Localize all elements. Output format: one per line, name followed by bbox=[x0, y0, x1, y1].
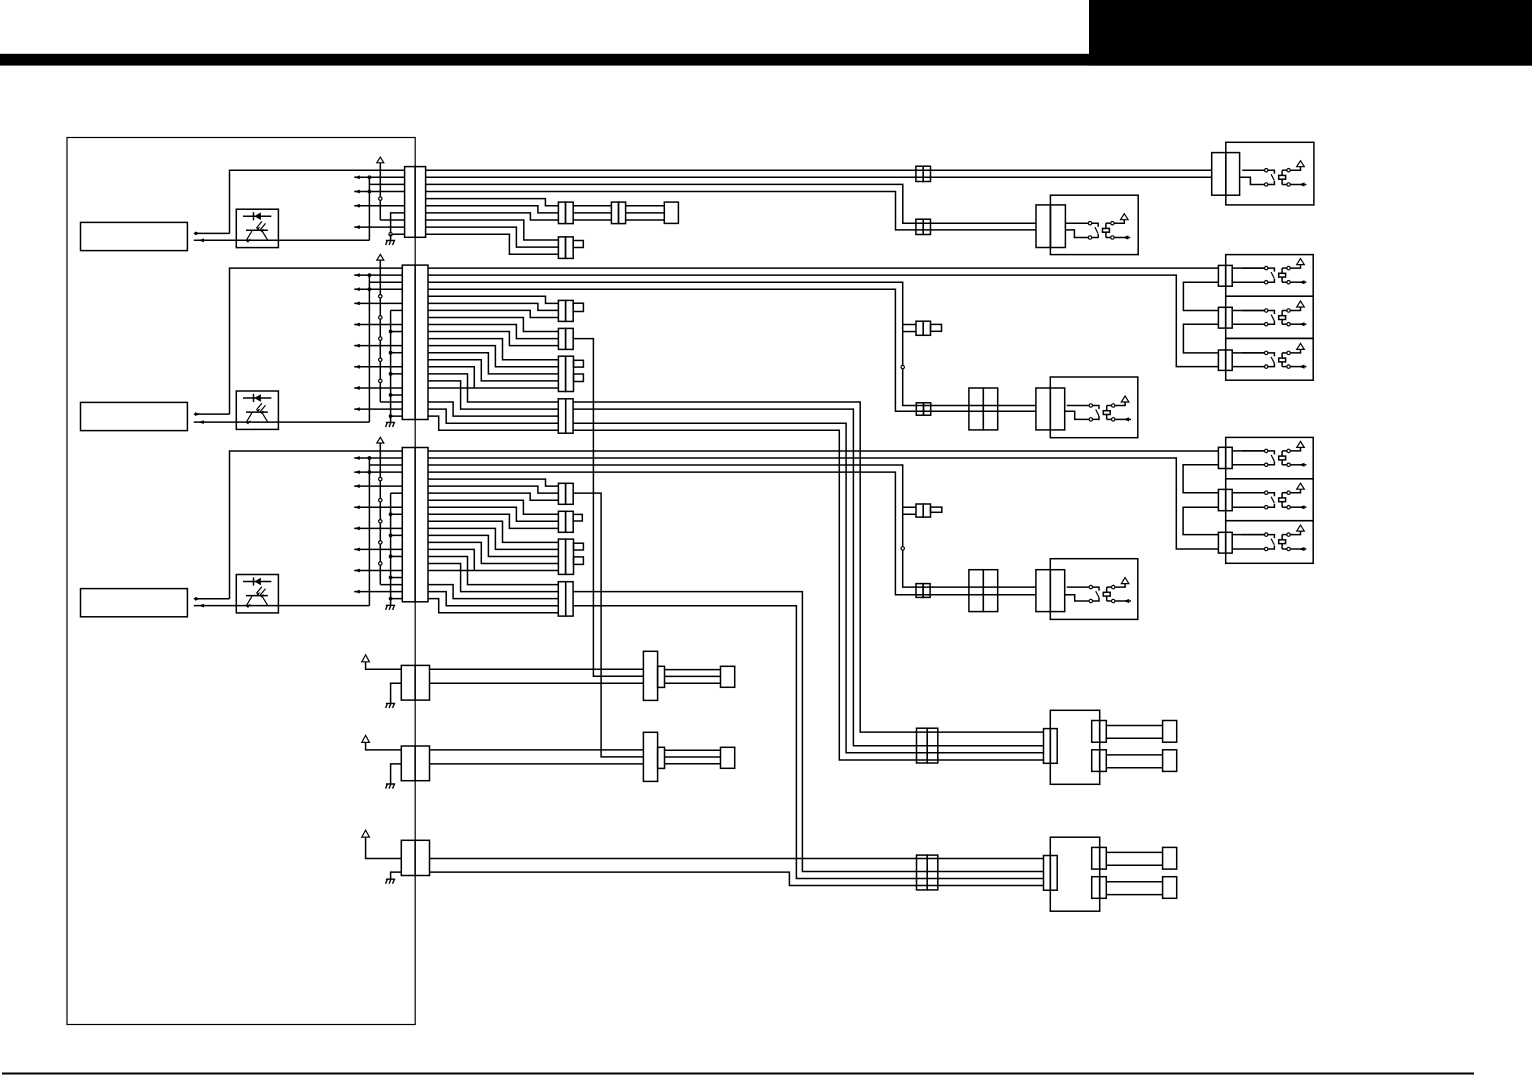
jack stack1 connector 2 bbox=[1218, 307, 1225, 328]
relay blade bbox=[1271, 357, 1274, 363]
relay input arrow bbox=[1114, 237, 1130, 239]
opto phototransistor bbox=[246, 411, 268, 413]
inline big pair group2 bbox=[917, 855, 928, 890]
wire label2 riser to CN2 pin1 bbox=[230, 268, 403, 414]
jack stack2 box3 bbox=[1226, 521, 1314, 564]
relay contact 1 bbox=[1242, 267, 1264, 269]
jack symbol bbox=[1232, 534, 1264, 536]
opto phototransistor bbox=[246, 595, 268, 597]
group1 lower wires bbox=[1106, 754, 1162, 756]
wire CN2 pin6 arrow bbox=[354, 302, 402, 304]
jack stack2 connector 3 bbox=[1218, 532, 1225, 553]
relay input arrow bbox=[1291, 464, 1307, 466]
plug B body bbox=[643, 732, 657, 781]
stub connector unit3 bbox=[916, 504, 923, 517]
relay blade bbox=[1271, 315, 1274, 321]
wire CN3 pin21 cascade to S4' bbox=[428, 592, 558, 606]
wire CN3 pin1 to jack stack2 bbox=[428, 450, 1218, 452]
power symbol unit3 bbox=[377, 437, 384, 443]
label box 3 bbox=[81, 589, 188, 617]
wire CN2 pin9 cascade bbox=[428, 325, 558, 339]
relay input arrow bbox=[1291, 323, 1307, 325]
ground bus unit3 bbox=[390, 493, 392, 598]
relay terminal 4 bbox=[1287, 365, 1290, 368]
relay contact 2 bbox=[1265, 506, 1268, 509]
wire CN3 pin7 cascade bbox=[428, 493, 558, 500]
relay box B bbox=[1050, 195, 1138, 254]
connector CN3 board edge bbox=[402, 448, 428, 602]
wire CN3 pin3 to stub and box D bbox=[428, 465, 1036, 587]
wire S4 row1 to group1 bbox=[573, 402, 1043, 732]
relay contact bracket bbox=[1092, 223, 1098, 227]
relay terminal 4 bbox=[1287, 463, 1290, 466]
relay input arrow bbox=[1291, 366, 1307, 368]
relay terminal 3 bbox=[1287, 533, 1290, 536]
relay terminal 3 bbox=[1111, 222, 1114, 225]
opto light arrows bbox=[257, 587, 266, 596]
relay contact bracket bbox=[1093, 587, 1099, 591]
bottom rule bbox=[2, 1073, 1474, 1075]
jack stack1 box2 bbox=[1226, 296, 1314, 338]
relay blade bbox=[1271, 539, 1274, 545]
wire CN1 pin3 bbox=[369, 183, 404, 185]
wire CNC row2 to group2 bbox=[430, 872, 1044, 885]
relay contact 2 bbox=[1089, 418, 1092, 421]
wire CN3 pin8 cascade bbox=[428, 500, 558, 514]
wire label2 return (arrow left) bbox=[194, 421, 370, 423]
ground bus unit2 bbox=[390, 310, 392, 416]
opto LED bbox=[243, 581, 271, 583]
relay contact 1 bbox=[1066, 222, 1088, 224]
relay contact bracket bbox=[1268, 535, 1274, 539]
wire CN3 pin9 cascade bbox=[428, 507, 558, 521]
wire box C row2 step bbox=[1065, 411, 1089, 419]
bus vertical x369 unit3 bbox=[368, 458, 370, 606]
relay contact 2 bbox=[1265, 365, 1268, 368]
wire CN3 pin12 arrow bbox=[354, 527, 402, 529]
stub connector unit2 bbox=[916, 321, 923, 335]
wire CN1 pin1 to relay box A bbox=[426, 169, 1212, 171]
wire CN2 pin15 cascade bbox=[428, 367, 474, 388]
wire CN1 pin9 arrow bbox=[354, 226, 404, 228]
wire CN2 pin2 arrow bbox=[354, 274, 402, 276]
plug B wires to end bbox=[665, 749, 721, 751]
wire CN2 pin5 cascade bbox=[428, 296, 558, 303]
wire box A row2 step bbox=[1240, 177, 1265, 184]
relay box D bbox=[1050, 559, 1138, 620]
jack chain link 4 bbox=[1183, 507, 1218, 534]
connector S1' bbox=[558, 483, 565, 504]
wire label3 return (arrow left) bbox=[194, 605, 370, 607]
ground symbol unit2 bbox=[386, 422, 396, 427]
wire S1' row2 long drop to plug B bbox=[573, 493, 643, 757]
relay terminal 3 bbox=[1287, 449, 1290, 452]
relay contact bracket bbox=[1268, 268, 1274, 272]
relay contact 2 bbox=[1265, 463, 1268, 466]
jack symbol bbox=[1232, 450, 1264, 452]
jack symbol bbox=[1232, 352, 1264, 354]
wire CN1 pin2 arrow bbox=[354, 176, 404, 178]
connector S4' bbox=[558, 582, 565, 616]
relay coil bbox=[1279, 456, 1286, 460]
power line unit3 bbox=[379, 443, 381, 585]
wires C1a to C1a2 bbox=[573, 205, 611, 207]
relay contact 1 bbox=[1242, 352, 1264, 354]
opto-isolator box bbox=[236, 575, 278, 613]
relay coil bbox=[1103, 592, 1110, 596]
wires C1a2 to end plug bbox=[626, 205, 665, 207]
inline pair to box D bbox=[916, 584, 923, 598]
wire CN3 pin9 arrow bbox=[354, 506, 402, 508]
wire CN1 pin5 cascade bbox=[426, 199, 559, 206]
wire CN2 pin21 cascade to S4 bbox=[428, 409, 558, 423]
group2 box bbox=[1050, 837, 1099, 911]
connector pair box C bbox=[1036, 388, 1050, 430]
wire CN2 pin11 cascade bbox=[428, 339, 558, 360]
wire CN3 pin10 cascade bbox=[428, 514, 558, 528]
relay coil bbox=[1103, 411, 1110, 415]
group1 upper end box bbox=[1163, 721, 1177, 743]
relay blade bbox=[1095, 227, 1098, 233]
relay contact bracket bbox=[1268, 311, 1274, 315]
relay supply arrow bbox=[1291, 349, 1301, 353]
opto LED bbox=[243, 215, 271, 217]
wire S2 row2 long drop to plug A bbox=[573, 339, 643, 677]
header black block top right bbox=[1089, 0, 1532, 66]
wire S4' row2 to group2 bbox=[573, 592, 1043, 872]
wire CN2 pin14 cascade bbox=[428, 360, 558, 381]
relay input arrow bbox=[1291, 281, 1307, 283]
relay input arrow bbox=[1115, 600, 1131, 602]
relay contact 1 bbox=[1242, 450, 1264, 452]
ground line unit1 bbox=[391, 213, 405, 234]
wire CN2 pin15 arrow bbox=[354, 366, 402, 368]
connector S1 with tab bbox=[558, 300, 565, 321]
relay contact 1 bbox=[1242, 534, 1264, 536]
wire label3 riser to CN3 pin1 bbox=[230, 451, 403, 599]
bus vertical x369 unit2 bbox=[368, 275, 370, 422]
power symbol unit2 bbox=[377, 254, 384, 260]
connector pair box D bbox=[1036, 570, 1050, 612]
wire CN1 pin2 to relay box A bbox=[426, 176, 1212, 178]
wire CN2 pin3 to stub and box C bbox=[428, 282, 1036, 405]
stub tab unit3 bbox=[931, 507, 942, 512]
inline connector pair to box B bbox=[916, 219, 923, 234]
connector S3 with two tabs bbox=[558, 356, 565, 391]
relay coil bbox=[1279, 175, 1286, 179]
wire CN2 pin10 cascade bbox=[428, 332, 558, 346]
wire CN2 pin17 cascade to S4 bbox=[428, 381, 558, 409]
connector pair C1a bbox=[558, 202, 565, 224]
group2 lower end box bbox=[1163, 877, 1177, 899]
relay input arrow bbox=[1291, 506, 1307, 508]
wire CN3 pin17 cascade to S4' bbox=[428, 563, 558, 591]
group1 box bbox=[1050, 710, 1099, 784]
relay input arrow bbox=[1291, 184, 1307, 186]
jack chain link 3 bbox=[1183, 465, 1218, 493]
inline connector pair on pins1-2 bbox=[916, 166, 923, 181]
wire CN1 pin3 to box B bbox=[426, 184, 1036, 223]
label box 2 bbox=[81, 402, 188, 430]
power line unit1 bbox=[379, 163, 381, 220]
relay contact 2 bbox=[1088, 236, 1091, 239]
wire CN3 pin3 bbox=[369, 464, 402, 466]
edge connector ground bbox=[391, 683, 402, 703]
wire CN3 pin4 to box D bbox=[428, 472, 1036, 595]
relay supply arrow bbox=[1291, 167, 1301, 171]
opto phototransistor bbox=[246, 229, 268, 231]
wire CN2 pin2 to jack stack1 bbox=[428, 275, 1218, 366]
connector pair box A bbox=[1212, 153, 1226, 196]
connector CN2 board edge bbox=[402, 265, 428, 419]
wire CN3 pin13 cascade bbox=[428, 535, 558, 556]
header black bar bbox=[0, 54, 1532, 66]
relay supply arrow bbox=[1115, 584, 1125, 588]
relay input arrow bbox=[1115, 418, 1131, 420]
relay contact bracket bbox=[1268, 451, 1274, 455]
wire label2 out (arrow right) bbox=[194, 413, 230, 415]
relay contact 2 bbox=[1265, 323, 1268, 326]
wire CN2 pin6 cascade bbox=[428, 303, 558, 310]
main board outline bbox=[67, 138, 415, 1025]
wire CN3 pin5 cascade bbox=[428, 479, 558, 486]
wire CNB row2 to plug B bbox=[430, 763, 644, 765]
ground symbol unit1 bbox=[386, 240, 396, 245]
wire S4 row4 to group1 bbox=[573, 423, 1043, 753]
wire CN3 pin2 arrow bbox=[354, 457, 402, 459]
wire CN3 pin6 cascade bbox=[428, 486, 558, 493]
relay terminal 3 bbox=[1287, 169, 1290, 172]
relay contact 1 bbox=[1067, 586, 1089, 588]
wire CN2 pin18 row to S3 bbox=[428, 387, 558, 389]
wire CN2 pin20 cascade to S4 bbox=[428, 402, 558, 416]
relay terminal 4 bbox=[1112, 418, 1115, 421]
wire CN1 pin4 to box B bbox=[426, 192, 1036, 230]
jack stack1 connector 3 bbox=[1218, 350, 1225, 370]
wire CNC row1 to group2 bbox=[430, 858, 1044, 860]
wire CN3 pin2 to jack stack2 bbox=[428, 458, 1218, 549]
relay coil bbox=[1279, 358, 1286, 362]
wire label1 return (arrow left) bbox=[194, 239, 370, 241]
jack stack1 connector 1 bbox=[1218, 265, 1225, 286]
wire CN3 pin15 arrow bbox=[354, 548, 402, 550]
wire label3 out (arrow right) bbox=[194, 598, 230, 600]
relay supply arrow bbox=[1114, 220, 1124, 224]
jack symbol bbox=[1232, 310, 1264, 312]
relay contact 2 bbox=[1265, 281, 1268, 284]
wire label1 out (arrow right) bbox=[194, 232, 230, 234]
power line unit2 bbox=[379, 260, 381, 402]
connector pair C1b bbox=[558, 237, 565, 259]
wire CN3 pin15 cascade bbox=[428, 549, 474, 570]
relay contact bracket bbox=[1268, 353, 1274, 357]
jack stack1 box3 bbox=[1226, 338, 1314, 380]
wire CN3 pin11 cascade bbox=[428, 521, 558, 542]
wire CN2 pin8 cascade bbox=[428, 317, 558, 331]
plug A end box bbox=[721, 666, 735, 687]
group2 upper wires bbox=[1106, 851, 1162, 853]
group2 connector bbox=[1044, 856, 1051, 891]
wire CN2 pin13 cascade bbox=[428, 353, 558, 374]
relay terminal 3 bbox=[1112, 404, 1115, 407]
group1 output pair lower bbox=[1092, 750, 1100, 772]
wire CN3 pin14 cascade bbox=[428, 542, 558, 563]
junction dots unit1 bbox=[368, 175, 372, 179]
group1 lower end box bbox=[1163, 750, 1177, 772]
connector S2 bbox=[558, 328, 565, 349]
relay supply arrow bbox=[1291, 531, 1301, 535]
relay contact bracket bbox=[1268, 493, 1274, 497]
jack symbol bbox=[1232, 492, 1264, 494]
plug A body bbox=[643, 651, 657, 700]
edge connector ground bbox=[391, 872, 402, 879]
relay terminal 3 bbox=[1287, 266, 1290, 269]
wire CN2 pin12 cascade bbox=[428, 346, 558, 367]
wire CN3 pin20 cascade to S4' bbox=[428, 585, 558, 599]
wire CN3 pin16 cascade to S4' bbox=[428, 556, 558, 584]
ground symbol unit3 bbox=[386, 605, 396, 610]
opto light arrows bbox=[257, 221, 266, 230]
group1 output pair upper bbox=[1092, 721, 1100, 743]
relay coil bbox=[1279, 498, 1286, 502]
group1 upper wires bbox=[1106, 725, 1162, 727]
connector CN1 board edge bbox=[405, 167, 426, 238]
relay coil bbox=[1279, 273, 1286, 277]
connector pair box B bbox=[1036, 205, 1050, 248]
relay contact bracket bbox=[1268, 170, 1274, 174]
relay terminal 4 bbox=[1287, 506, 1290, 509]
relay coil bbox=[1103, 228, 1110, 232]
relay terminal 4 bbox=[1111, 236, 1114, 239]
connector pair C1a2 bbox=[611, 202, 618, 224]
relay coil bbox=[1279, 540, 1286, 544]
relay blade bbox=[1096, 410, 1099, 416]
edge connector ground bbox=[391, 764, 402, 784]
wire CN1 pin9 cascade bbox=[426, 227, 559, 247]
wire CN3 pin4 arrow bbox=[354, 471, 402, 473]
relay blade bbox=[1096, 591, 1099, 597]
relay supply arrow bbox=[1291, 265, 1301, 269]
inline pair to box C bbox=[916, 403, 923, 415]
relay contact 2 bbox=[1265, 547, 1268, 550]
edge connector bbox=[401, 746, 429, 781]
wire CN2 pin7 cascade bbox=[428, 310, 558, 317]
relay coil bbox=[1279, 316, 1286, 320]
connector S2' with tab bbox=[558, 511, 565, 532]
connector S3' with two tabs bbox=[558, 539, 565, 574]
wire CN1 pin6 cascade bbox=[426, 206, 559, 213]
edge connector power arrow bbox=[366, 742, 402, 750]
relay box A bbox=[1226, 142, 1314, 205]
relay terminal 3 bbox=[1112, 585, 1115, 588]
relay terminal 3 bbox=[1287, 491, 1290, 494]
inline big pair group1 bbox=[917, 728, 928, 763]
relay terminal 4 bbox=[1287, 547, 1290, 550]
relay contact 1 bbox=[1242, 310, 1264, 312]
group2 output pair lower bbox=[1092, 877, 1100, 899]
wire box B row2 step bbox=[1065, 230, 1088, 238]
connector S4 bbox=[558, 399, 565, 433]
wide pair to box C bbox=[969, 388, 983, 430]
wire box D row2 step bbox=[1065, 595, 1089, 601]
relay contact 1 bbox=[1067, 405, 1089, 407]
jack stack2 connector 2 bbox=[1218, 489, 1225, 510]
wire CN1 pin10 cascade bbox=[426, 234, 559, 254]
opto-isolator box bbox=[236, 209, 278, 247]
edge connector bbox=[401, 840, 429, 875]
relay supply arrow bbox=[1291, 307, 1301, 311]
wire CN3 pin12 cascade bbox=[428, 528, 558, 549]
end plug box bbox=[664, 202, 678, 223]
edge connector power arrow bbox=[366, 837, 402, 858]
wire CN2 pin22 cascade to S4 bbox=[428, 416, 558, 430]
relay terminal 3 bbox=[1287, 309, 1290, 312]
edge connector bbox=[401, 665, 429, 700]
wire CNA row1 to plug A bbox=[430, 668, 644, 670]
group2 lower wires bbox=[1106, 881, 1162, 883]
wire CN2 pin12 arrow bbox=[354, 345, 402, 347]
jack stack2 connector 1 bbox=[1218, 447, 1225, 468]
wire CN2 pin3 bbox=[369, 281, 402, 283]
wire CN2 pin1 to jack stack1 bbox=[428, 267, 1218, 269]
power symbol unit1 bbox=[377, 157, 384, 163]
opto LED bbox=[243, 397, 271, 399]
wire CN2 pin21 arrow bbox=[354, 408, 402, 410]
relay terminal 4 bbox=[1287, 323, 1290, 326]
wire CN1 pin7 cascade bbox=[426, 213, 559, 220]
relay blade bbox=[1271, 174, 1274, 180]
relay terminal 4 bbox=[1287, 183, 1290, 186]
wire CN2 pin4 arrow bbox=[354, 288, 402, 290]
relay blade bbox=[1271, 497, 1274, 503]
group1 connector bbox=[1044, 729, 1051, 764]
relay blade bbox=[1271, 272, 1274, 278]
relay contact 1 bbox=[1242, 492, 1264, 494]
wire S4' row4 to group2 bbox=[573, 606, 1043, 879]
relay input arrow bbox=[1291, 548, 1307, 550]
wire CN2 pin9 arrow bbox=[354, 324, 402, 326]
relay terminal 4 bbox=[1112, 599, 1115, 602]
wire CNA row2 to plug A bbox=[430, 682, 644, 684]
wire S4 row2 to group1 bbox=[573, 409, 1043, 746]
relay contact 2 bbox=[1089, 599, 1092, 602]
relay box C bbox=[1050, 377, 1138, 438]
group2 output pair upper bbox=[1092, 847, 1100, 869]
wire CN3 pin21 arrow bbox=[354, 591, 402, 593]
wire label1 riser to CN1 pin1 bbox=[230, 170, 405, 233]
opto-isolator box bbox=[236, 391, 278, 429]
opto light arrows bbox=[257, 403, 266, 412]
wire CN3 pin6 arrow bbox=[354, 485, 402, 487]
wire CN3 pin18 arrow bbox=[354, 570, 402, 572]
jack stack2 box1 bbox=[1226, 437, 1314, 478]
wire CNB row1 to plug B bbox=[430, 749, 644, 751]
jack symbol bbox=[1232, 267, 1264, 269]
wire CN2 pin4 to box C bbox=[428, 289, 1036, 411]
relay contact 1 bbox=[1242, 169, 1264, 171]
wire CN2 pin18 arrow bbox=[354, 387, 402, 389]
group2 upper end box bbox=[1163, 847, 1177, 869]
wide pair to box D bbox=[969, 570, 983, 612]
wire CN1 pin8 cascade bbox=[426, 220, 559, 240]
plug B end box bbox=[721, 747, 735, 768]
relay contact 2 bbox=[1265, 183, 1268, 186]
relay terminal 4 bbox=[1287, 281, 1290, 284]
edge connector power arrow bbox=[366, 662, 402, 670]
wire CN2 pin16 cascade to S4 bbox=[428, 374, 558, 402]
jack stack1 box1 bbox=[1226, 255, 1314, 297]
label box 1 bbox=[81, 222, 188, 250]
